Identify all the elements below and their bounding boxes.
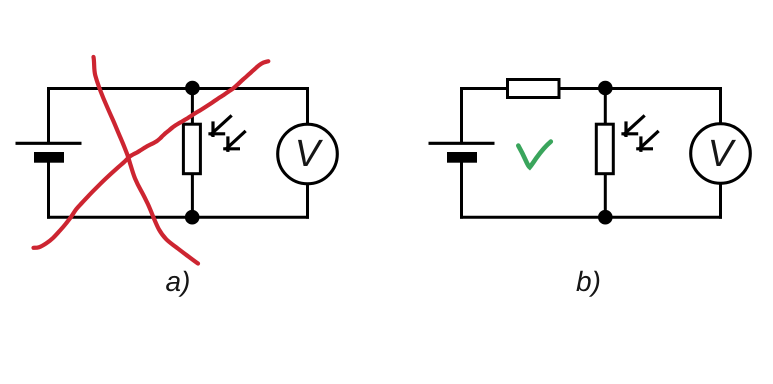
wire: circuit a left lower (from battery) bbox=[47, 161, 50, 219]
label a) bbox=[166, 271, 189, 297]
label b) bbox=[576, 271, 599, 297]
wire: circuit a top rail bbox=[47, 87, 309, 90]
resistor R2 (series resistor in top rail, circuit b) bbox=[508, 80, 560, 98]
wire: circuit b top rail bbox=[460, 87, 722, 90]
voltmeter V1 label V bbox=[298, 140, 323, 166]
node top junction dot (circuit b) bbox=[598, 81, 613, 96]
wire: circuit a middle branch bbox=[191, 89, 194, 218]
battery B1 long plate (circuit a) bbox=[16, 142, 82, 145]
wire: circuit a bottom rail bbox=[47, 216, 309, 219]
wire: circuit a right side bbox=[306, 87, 309, 219]
wire: circuit b bottom rail bbox=[460, 216, 722, 219]
wire: circuit a left upper (to battery) bbox=[47, 87, 50, 143]
voltmeter V1 circle (circuit a) bbox=[278, 124, 338, 184]
resistor R3 (LDR body, circuit b) bbox=[596, 124, 613, 174]
wire: circuit b left upper (to battery) bbox=[460, 87, 463, 143]
light arrow 2 onto R3 (circuit b) bbox=[638, 132, 658, 150]
node bottom junction dot (circuit a) bbox=[185, 210, 200, 225]
light arrow 2 onto R1 (circuit a) bbox=[225, 132, 245, 150]
battery B2 long plate (circuit b) bbox=[429, 142, 495, 145]
resistor R1 (LDR body, circuit a) bbox=[183, 124, 200, 174]
battery B2 short thick plate (circuit b) bbox=[447, 152, 477, 163]
wire: circuit b middle branch bbox=[604, 89, 607, 218]
node top junction dot (circuit a) bbox=[185, 81, 200, 96]
red cross stroke 2 (over circuit a, bottom-left to top-right) bbox=[34, 61, 269, 248]
voltmeter V2 circle (circuit b) bbox=[691, 124, 751, 184]
light arrow 1 onto R1 (circuit a) bbox=[210, 117, 231, 136]
node bottom junction dot (circuit b) bbox=[598, 210, 613, 225]
wire: circuit b right side bbox=[719, 87, 722, 219]
voltmeter V2 label V bbox=[711, 140, 736, 166]
green check mark (circuit b approved) bbox=[518, 142, 551, 168]
wire: circuit b left lower (from battery) bbox=[460, 161, 463, 219]
red cross stroke 1 (over circuit a, top-left to bottom-right) bbox=[94, 57, 199, 264]
battery B1 short thick plate (circuit a) bbox=[34, 152, 64, 163]
light arrow 1 onto R3 (circuit b) bbox=[623, 117, 644, 136]
